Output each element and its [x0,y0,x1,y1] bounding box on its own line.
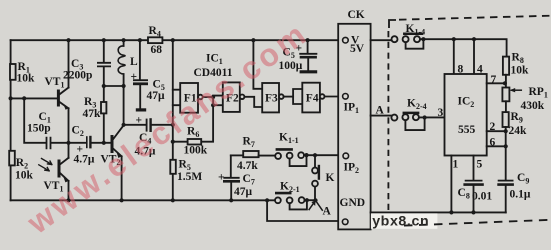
phototransistor VT1b collector [59,158,68,165]
node A probe arrow [309,200,322,210]
svg-text:A: A [323,206,332,218]
svg-text:0.1μ: 0.1μ [510,189,531,201]
wire F3 output [284,96,294,98]
gate F3 output bubble [279,94,284,99]
CK pin IP2 circle [343,153,349,159]
wire IC2 pin4 riser [473,39,475,74]
svg-text:100k: 100k [184,145,208,157]
svg-text:+: + [218,172,225,184]
switch K1-1 contact 1 [275,153,281,159]
svg-text:0.01: 0.01 [472,191,492,203]
transistor VT2 emitter arrowhead [116,152,121,158]
svg-text:10k: 10k [15,170,34,182]
capacitor C7 plates [224,177,238,179]
phototransistor VT1b light arrow 1 [42,159,52,165]
gate F4 output bubble [320,94,325,99]
CK receiver box [338,24,370,230]
transistor VT1 base bar [57,91,60,105]
svg-text:430k: 430k [521,100,545,112]
svg-text:F4: F4 [306,93,319,105]
switch K2-4 contact 1 [391,115,397,121]
wire F1 input stubs [173,90,180,106]
transistor VT2 base bar [111,137,114,152]
ybx8.cn watermark plate [371,213,438,228]
switch K blade bar [318,166,320,179]
switch K2-1 blade bar [276,192,290,195]
gate F3 box [262,83,279,112]
svg-text:2200p: 2200p [63,70,92,82]
wire C5 branch [139,40,141,108]
wire R7 left corner to C7 [230,155,232,176]
gate F2 box [223,82,240,112]
wire IC2 pin5 to C8 [473,156,475,181]
wire K1-4 bypass loop [406,39,424,49]
wire VT1 emitter chain vertical [68,40,70,200]
svg-text:1: 1 [453,159,459,171]
capacitor C4 plates [146,119,148,132]
wire K1-1 output to CK IP2 [304,154,341,156]
resistor R8 box [503,57,509,75]
capacitor C2 plates [86,136,88,148]
phototransistor VT1b light arrow 2 [39,165,49,171]
capacitor C6 ground end bar [301,70,315,73]
wire F2 output to F3 lower input [244,97,262,107]
wire F1 input line from rail [172,40,174,200]
wire L bottom to C4 [124,124,146,126]
svg-text:10k: 10k [17,73,36,85]
wire K2-1 output to node A [305,199,316,201]
resistor R1 box [10,64,16,80]
transistor VT2 emitter [113,148,122,156]
wire right section ground line [371,211,506,213]
wire switch K branch from IP2 line [314,155,316,200]
wire CK V to K1-4 [371,39,392,41]
wire C2 right to VT2 base [91,142,111,144]
svg-text:4.7k: 4.7k [237,160,258,172]
svg-text:7: 7 [491,74,497,86]
svg-text:GND: GND [340,197,366,209]
svg-text:8: 8 [458,64,464,76]
transistor VT1 emitter [59,102,69,109]
inductor L coil [118,46,125,74]
svg-text:150p: 150p [27,123,51,135]
phototransistor VT1b emitter arrowhead [63,176,68,182]
svg-text:47k: 47k [83,108,102,120]
gate F4 input loop [293,89,302,104]
resistor R5 box [170,160,176,174]
svg-text:3: 3 [438,107,444,119]
wire K2-4 output to IC2 pin3 [419,116,445,118]
wire ground rail to CK GND [267,200,341,221]
switch K contact upper [312,168,318,174]
svg-text:5: 5 [477,159,483,171]
svg-text:K: K [326,172,335,184]
resistor R9 box [503,112,509,127]
svg-text:4: 4 [477,64,483,76]
wire F2 input stubs [213,96,223,106]
wire top supply rail right of R4 [162,39,341,41]
wire VT2 emitter to ground rail [121,156,123,200]
svg-text:+: + [131,71,138,83]
dashed remote-control boundary top [399,16,551,20]
potentiometer RP1 wiper arrow [512,89,522,91]
dashed remote-control boundary corner [389,20,396,28]
wire C6 branch [307,40,310,70]
wire R9 bottom through pin2 pin6 nodes to C9 [505,127,507,180]
svg-text:47μ: 47μ [147,90,166,102]
switch K contact lower [312,181,318,187]
wire IC2 pin2 [487,130,506,132]
wire IC2 pin7 [487,82,505,84]
transistor VT1 collector [59,88,69,95]
svg-text:2: 2 [490,121,496,133]
transistor VT2 collector [113,125,124,140]
wire K2-4 bypass loop [405,118,424,131]
wire bottom ground rail [11,199,276,201]
resistor R6 box [188,139,202,145]
wire CK A output to K2-4 [371,115,392,117]
wire F3 upper input from rail [253,40,262,89]
svg-text:10k: 10k [511,65,530,77]
gate F2 output bubble [240,95,245,100]
wire R6 right to feedback riser [201,97,213,142]
switch K1-4 contact 1 [392,36,398,42]
CK pin IP1 circle [343,94,349,100]
wire RP1 to R9 [505,101,507,112]
IC2 555 box [445,74,487,156]
wire R6 left tap [173,141,188,143]
switch K1-1 contact 3 [298,152,304,158]
wire F1 output [203,96,213,98]
wire C1 left tap [24,98,46,142]
wire L branch vertical [123,40,125,125]
wire C7 bottom to ground rail [230,183,232,201]
switch K1-4 contact 2 [403,36,409,42]
wire R7 right lead to K1-1 [259,155,276,157]
dashed remote-control boundary bottom [404,220,551,226]
switch K2-1 contact 1 [275,197,281,203]
capacitor C5 ground end bar [136,108,146,111]
svg-text:F3: F3 [265,93,278,105]
capacitor C5 plates [133,79,148,81]
svg-text:6: 6 [490,137,496,149]
wire R3 bottom [103,113,105,142]
capacitor C6 plates [300,53,316,55]
svg-text:47μ: 47μ [234,186,253,198]
switch K2-4 blade bar [404,112,418,115]
resistor R7 box [243,151,258,157]
junction dots [66,38,70,42]
wire VT1 base [11,97,58,99]
svg-text:5V: 5V [350,43,365,55]
resistor R3 box [101,102,106,113]
svg-text:L: L [130,56,138,68]
phototransistor VT1b base bar [58,161,61,176]
capacitor C1 plates [47,137,51,149]
capacitor C8 plates [466,180,482,182]
wire top supply rail left of R4 [11,39,148,41]
wire left vertical branch [10,40,12,200]
switch K1-1 contact 2 [287,153,293,159]
wire C1 right to VT2 base [51,142,86,144]
dashed remote-control boundary left [387,31,389,212]
wire K1-1 bypass loop [290,155,307,166]
wire R8 bottom to pin7 node [505,75,507,88]
wire node C3/R3 to L [104,85,124,87]
capacitor C9 plates [499,180,513,182]
resistor R2 box [9,151,15,166]
CK pin V circle [343,37,349,43]
switch K2-4 contact 2 [402,114,408,120]
gate F1 output bubble [198,95,203,100]
wire K2-1 bypass loop [290,200,307,209]
CK pin GND circle [342,219,348,225]
wire C9 bottom to ground line [505,186,507,213]
switch K1-1 blade bar [277,148,292,151]
wire IC2 pin6 [487,145,506,147]
phototransistor VT1b emitter [59,172,68,181]
potentiometer RP1 box [502,88,509,102]
svg-text:A: A [376,105,385,117]
switch K2-1 contact 2 [287,197,293,203]
switch K2-4 contact 3 [413,114,419,120]
wire R7 left lead [231,154,243,156]
switch K1-4 contact 3 [414,36,420,42]
wire C4 right to R5 line [151,124,173,126]
wire C3 branch vertical [103,40,105,102]
transistor VT1 emitter arrowhead [63,104,68,110]
svg-text:68: 68 [151,44,163,56]
switch K2-1 contact 3 [299,197,305,203]
svg-text:CK: CK [348,9,365,21]
wire IC2 pin1 to ground line [450,156,452,213]
svg-text:1.5M: 1.5M [177,171,202,183]
svg-text:555: 555 [458,124,476,136]
wire F4 output to CK IP1 [325,96,342,98]
svg-text:ybx8.cn: ybx8.cn [372,214,429,230]
gate F1 box [180,83,198,113]
wire K1-4 output to R8 corner [420,39,507,56]
resistor R4 box [148,37,162,43]
capacitor C3 plates [97,63,111,67]
svg-text:24k: 24k [509,125,528,137]
switch K1-4 blade bar [404,33,422,36]
wire IC2 pin8 riser [453,39,455,74]
wire C8 bottom to ground line [473,186,475,213]
gate F4 box [302,83,320,113]
